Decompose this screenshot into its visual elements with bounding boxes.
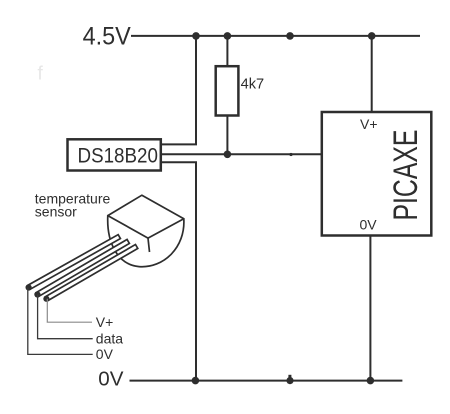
wire: PICAXE 0V pin to 0V rail (369, 236, 371, 381)
temperature sensor body (TO-92 package, curved underside) (108, 216, 184, 267)
svg-text:DS18B20: DS18B20 (78, 144, 158, 167)
node: 0V rail / PICAXE junction (367, 377, 375, 385)
node: 4.5V rail / PICAXE V+ junction (368, 32, 376, 40)
resistor R1 body (216, 66, 239, 115)
sensor lead 2 (data, middle) (36, 239, 129, 296)
callout wire: data lead (38, 295, 93, 339)
wire: DS18B20 pin 0V down to 0V rail (161, 162, 196, 380)
svg-text:PICAXE: PICAXE (387, 130, 425, 221)
node: small junction on data line (289, 153, 292, 156)
wire: DS18B20 pin V+ to 4.5V rail (161, 36, 196, 144)
temperature sensor body top face (108, 195, 184, 238)
svg-text:4k7: 4k7 (241, 76, 265, 92)
svg-text:4.5V: 4.5V (83, 23, 132, 51)
node: resistor bottom / data line junction (224, 151, 232, 159)
callout wire: V+ lead (47, 299, 92, 322)
sensor lead 1 (0V, top) (27, 235, 120, 290)
temperature sensor body front edge (148, 238, 150, 252)
wire: DS18B20 data line to PICAXE input (161, 153, 322, 155)
wire: resistor bottom lead to data line (226, 115, 228, 154)
svg-text:V+: V+ (96, 314, 114, 330)
svg-text:f: f (38, 64, 44, 85)
svg-text:data: data (96, 331, 123, 347)
wire: 0V rail (130, 380, 403, 382)
wire: stub above centre 0V junction (288, 375, 291, 381)
component box DS18B20 (68, 139, 161, 170)
sensor lead tip 0V (26, 284, 32, 290)
node: 4.5V rail / resistor junction (224, 32, 232, 40)
wire: 4.5V supply rail (131, 35, 420, 37)
svg-text:0V: 0V (98, 368, 123, 391)
node: 0V rail / DS18B20 junction (192, 377, 200, 385)
sensor lead tip V+ (43, 296, 49, 302)
sensor lead tip data (34, 291, 40, 297)
node: 0V rail centre junction (286, 377, 293, 384)
node: 4.5V rail / DS18B20 V+ junction (192, 32, 200, 40)
sensor lead 3 (V+, bottom) (45, 245, 138, 301)
wire: PICAXE V+ pin to 4.5V rail (371, 36, 373, 112)
wire: resistor top lead from 4.5V rail (226, 36, 228, 67)
svg-text:sensor: sensor (35, 203, 77, 219)
svg-text:V+: V+ (360, 116, 378, 132)
svg-text:0V: 0V (360, 217, 378, 233)
node: 4.5V rail centre junction (286, 32, 294, 40)
svg-text:0V: 0V (96, 346, 114, 362)
callout wire: 0V lead (28, 288, 93, 355)
component box PICAXE (322, 112, 432, 236)
